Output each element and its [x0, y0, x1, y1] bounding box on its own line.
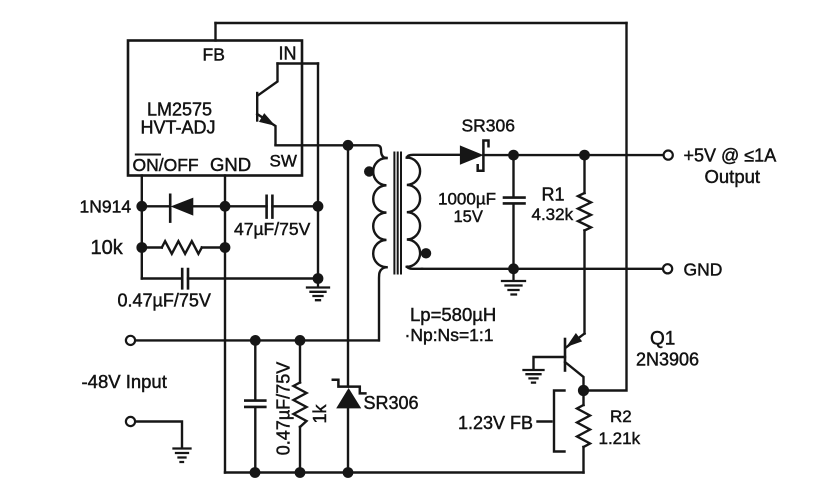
node ON/OFF-diode junction	[136, 201, 147, 212]
capacitor C2 0.47uF/75V	[142, 269, 318, 288]
capacitor C1 47uF/75V	[225, 196, 318, 218]
node R1 top junction	[579, 150, 590, 161]
node cap-IN column junction	[313, 201, 324, 212]
svg-text:2N3906: 2N3906	[636, 350, 699, 370]
svg-text:0.47µF/75V: 0.47µF/75V	[118, 291, 211, 311]
capacitor C3 1000uF 15V	[504, 155, 525, 269]
wire GND pin column down to bottom rail	[224, 176, 226, 473]
wire top feedback bus	[216, 22, 627, 24]
svg-text:15V: 15V	[454, 208, 483, 226]
probe bracket 1.23V FB	[538, 391, 565, 452]
node SW junction	[343, 140, 354, 151]
wire bottom rail	[225, 471, 584, 473]
wire SW node down to snubber diode	[347, 145, 349, 386]
node 1k bottom junction	[295, 467, 306, 478]
svg-text:SW: SW	[270, 152, 297, 171]
node 10k right junction	[220, 242, 231, 253]
resistor R1 4.32k	[578, 155, 591, 333]
wire SW pin to switching node	[276, 144, 349, 146]
node C4 bottom junction	[250, 467, 261, 478]
ground Q1 base	[524, 370, 544, 383]
node filter cap ground junction	[508, 263, 519, 274]
svg-text:1000µF: 1000µF	[438, 190, 496, 209]
svg-text:GND: GND	[684, 260, 723, 280]
svg-text:GND: GND	[210, 154, 251, 175]
svg-text:ON/OFF: ON/OFF	[133, 155, 199, 175]
node 1k top junction	[295, 335, 306, 346]
svg-text:1k: 1k	[310, 403, 330, 423]
svg-text:1.23V FB: 1.23V FB	[458, 413, 533, 433]
svg-text:47µF/75V: 47µF/75V	[234, 219, 311, 239]
terminal input return	[126, 417, 135, 426]
wire FB stub from IC top to feedback loop	[214, 23, 216, 41]
node 10k left junction	[136, 242, 147, 253]
resistor R2 1.21k	[577, 391, 590, 473]
svg-text:SR306: SR306	[364, 393, 419, 413]
op-amp U1 box LM2575 HVT-ADJ	[128, 41, 302, 176]
wire input return to ground	[135, 422, 182, 449]
wire output GND rail	[422, 268, 663, 270]
transistor internal switch of U1	[257, 64, 277, 145]
node rectifier-capacitor junction	[508, 150, 519, 161]
wire IN pin to input-ground column	[278, 62, 319, 64]
transistor Q1 2N3906	[534, 334, 585, 391]
svg-text:+5V @ ≤1A: +5V @ ≤1A	[684, 146, 777, 166]
ground below IN column	[307, 279, 329, 301]
ground input return	[174, 449, 191, 463]
diode D1 1N914	[142, 195, 225, 222]
svg-text:·Np:Ns=1:1: ·Np:Ns=1:1	[405, 325, 494, 345]
wire -48V input rail	[135, 339, 378, 341]
resistor 10k	[142, 241, 225, 254]
node C2-IN column junction	[313, 273, 324, 284]
wire SW node to transformer primary top	[348, 145, 387, 158]
svg-text:Lp=580µH: Lp=580µH	[410, 304, 496, 325]
ground output common	[502, 269, 525, 295]
svg-text:-48V Input: -48V Input	[82, 371, 167, 392]
svg-text:LM2575: LM2575	[147, 100, 212, 120]
svg-text:0.47µF/75V: 0.47µF/75V	[274, 362, 294, 455]
svg-text:1.21k: 1.21k	[599, 429, 641, 448]
wire IN column down to ground	[317, 64, 319, 281]
node snubber bottom junction	[343, 467, 354, 478]
wire +5V rail	[483, 154, 663, 156]
svg-text:1N914: 1N914	[80, 197, 132, 217]
svg-text:4.32k: 4.32k	[532, 205, 574, 224]
svg-text:R2: R2	[610, 407, 632, 426]
terminal +5V output	[664, 151, 673, 160]
node GND-diode junction	[220, 201, 231, 212]
svg-text:IN: IN	[279, 44, 297, 64]
diode D3 SR306 snubber	[333, 380, 366, 473]
node primary polarity dot	[364, 166, 374, 176]
svg-text:Output: Output	[705, 166, 761, 187]
node Q1 collector / R2 junction	[578, 385, 589, 396]
svg-text:HVT-ADJ: HVT-ADJ	[141, 118, 216, 138]
diode D2 SR306 output rectifier	[461, 141, 489, 171]
svg-text:R1: R1	[542, 185, 565, 205]
svg-text:FB: FB	[203, 45, 225, 65]
svg-text:Q1: Q1	[650, 329, 675, 350]
svg-text:SR306: SR306	[462, 116, 516, 136]
wire right-side feedback drop to Q1 collector node	[589, 23, 627, 391]
resistor R3 1k	[294, 340, 307, 472]
transformer T1 primary winding	[373, 158, 386, 340]
terminal -48V input top	[126, 336, 135, 345]
capacitor C4 0.47uF/75V input	[245, 340, 265, 472]
terminal GND output	[663, 264, 672, 273]
transformer T1 secondary winding	[407, 155, 461, 269]
node C4 top junction	[250, 335, 261, 346]
svg-text:10k: 10k	[91, 237, 124, 259]
transformer T1 core	[394, 153, 401, 274]
node secondary polarity dot	[421, 248, 431, 258]
wire ON/OFF pin column	[141, 176, 143, 279]
